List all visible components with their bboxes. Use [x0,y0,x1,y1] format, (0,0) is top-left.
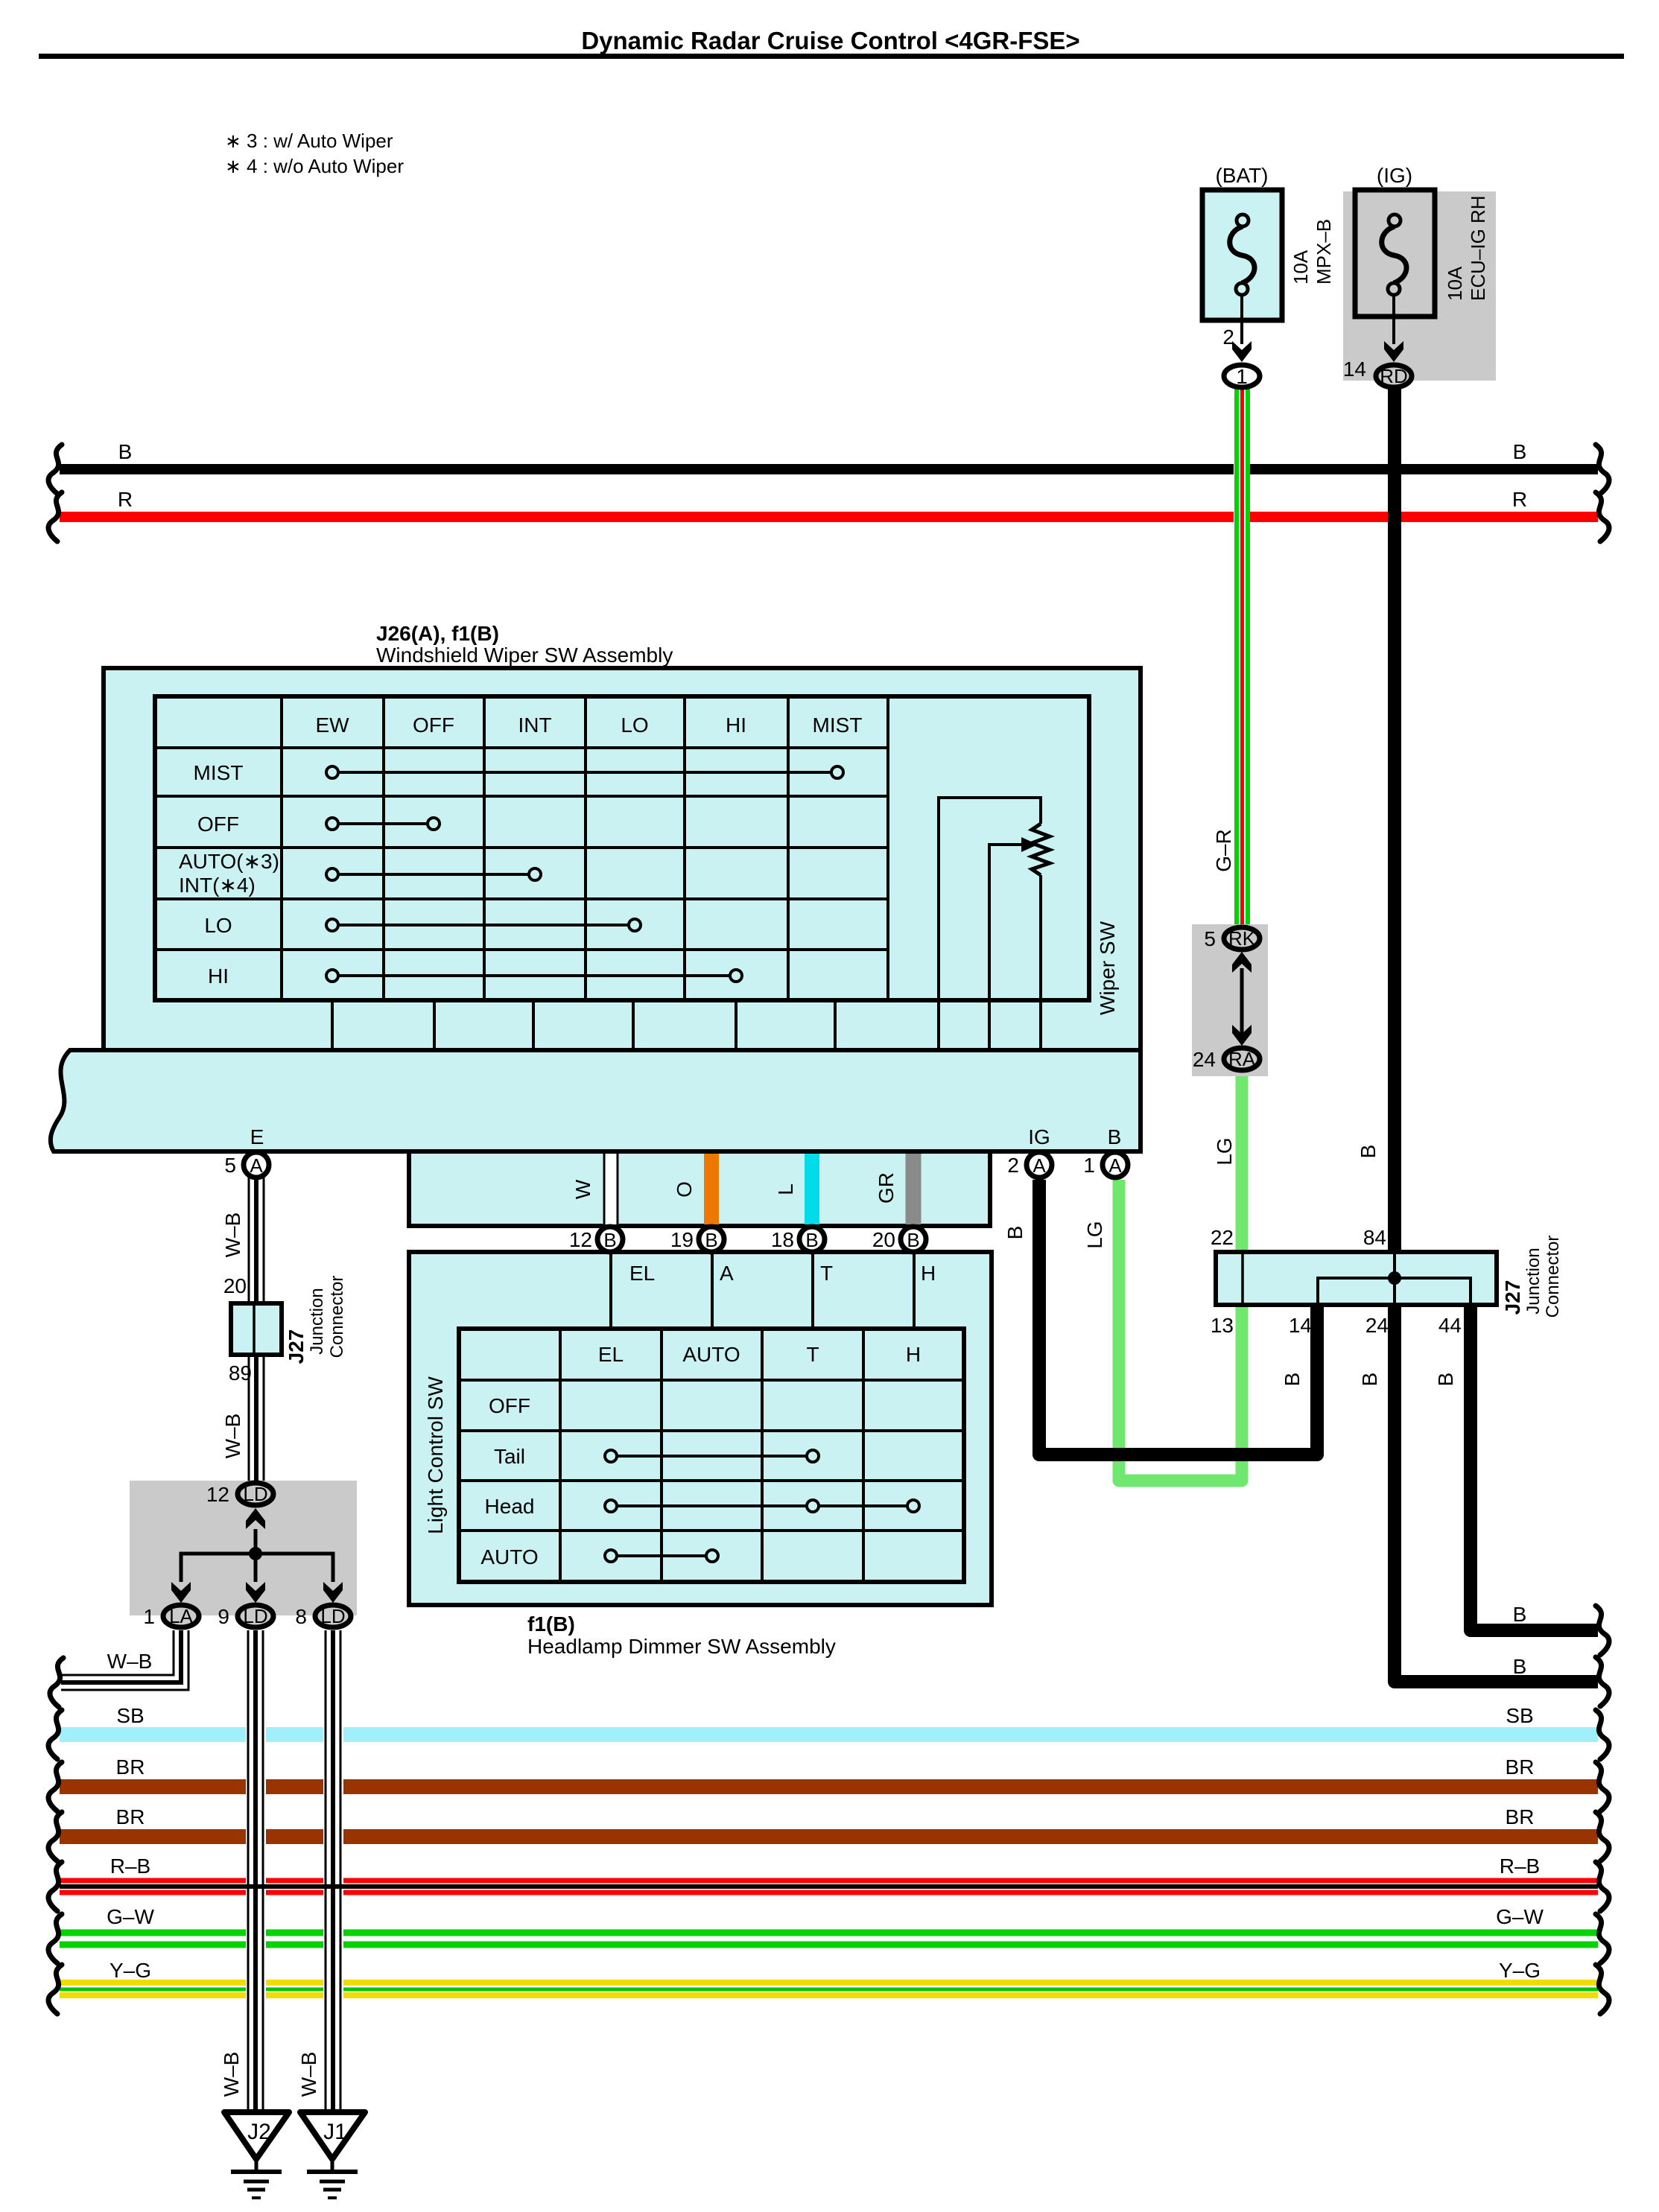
svg-text:LG: LG [1213,1137,1236,1165]
potentiometer wiper arrow [1021,837,1038,852]
svg-text:G–W: G–W [1496,1905,1544,1928]
svg-text:12: 12 [206,1483,229,1506]
potentiometer loop wiring [939,798,1041,1050]
svg-text:14: 14 [1343,357,1366,381]
svg-text:SB: SB [116,1704,144,1727]
connector B pin 20 [872,1227,926,1252]
svg-text:J27: J27 [285,1329,308,1364]
svg-text:L: L [774,1183,797,1195]
svg-text:84: 84 [1363,1226,1386,1249]
svg-text:T: T [806,1343,819,1366]
light control contact row Head [605,1500,919,1512]
svg-text:OFF: OFF [413,714,454,737]
svg-text:Junction: Junction [307,1288,327,1354]
wire B from RD down to J27 [1388,376,1401,1254]
svg-text:1: 1 [1083,1154,1095,1177]
wire fuse BAT to connector 1 [1240,295,1243,344]
svg-text:(BAT): (BAT) [1215,164,1268,187]
svg-text:8: 8 [295,1605,307,1628]
svg-text:A: A [720,1262,734,1285]
wires from B connectors into light control table [611,1252,914,1329]
svg-text:J2: J2 [247,2120,271,2144]
svg-text:B: B [805,1229,818,1251]
light control table headers [598,1343,921,1366]
svg-text:Wiper SW: Wiper SW [1096,921,1119,1015]
svg-text:HI: HI [726,714,746,737]
light control contact row AUTO [605,1550,718,1562]
light control table column lines [560,1329,863,1582]
ground J2 [224,2112,289,2198]
arrow into LD12 [246,1508,265,1529]
title rule [39,54,1624,59]
bus BR upper [48,1755,1609,1811]
svg-text:B: B [1513,1655,1527,1678]
svg-text:B: B [1358,1373,1381,1387]
wiper assembly main box [104,668,1141,1050]
ground J1 [300,2112,365,2198]
svg-text:5: 5 [224,1154,236,1177]
svg-text:B: B [1108,1125,1122,1148]
svg-text:A: A [1032,1154,1046,1177]
svg-text:2: 2 [1007,1154,1019,1177]
svg-text:Light Control SW: Light Control SW [424,1376,447,1534]
fuse MPX-B element [1230,214,1254,295]
svg-text:18: 18 [771,1228,794,1251]
svg-text:B: B [1003,1226,1027,1240]
wire W-B from J27 (left) to LD12 [249,1355,264,1481]
svg-text:W–B: W–B [221,1414,244,1459]
svg-text:Dynamic Radar Cruise Control <: Dynamic Radar Cruise Control <4GR-FSE> [581,27,1079,54]
svg-text:W: W [571,1179,594,1199]
svg-text:B: B [1513,440,1527,463]
svg-text:EL: EL [629,1262,655,1285]
svg-text:13: 13 [1211,1314,1234,1337]
svg-text:B: B [907,1229,919,1251]
svg-text:AUTO: AUTO [682,1343,740,1366]
J27 (left) internal divider [253,1303,256,1355]
svg-text:H: H [921,1262,936,1285]
svg-text:Y–G: Y–G [1499,1959,1541,1982]
LD/LA gray block [130,1481,357,1615]
svg-text:J26(A), f1(B): J26(A), f1(B) [376,622,499,645]
svg-text:MPX–B: MPX–B [1313,219,1335,285]
wire B from connector A2 down, right, up to J27 pin 14 [1039,1180,1317,1455]
svg-text:T: T [820,1262,833,1285]
svg-text:20: 20 [223,1274,247,1297]
svg-text:Connector: Connector [1543,1236,1563,1318]
svg-text:12: 12 [569,1228,592,1251]
bus B (top) [48,440,1609,494]
wire W-B from LD8 to ground J1 [326,1630,340,2112]
svg-text:BR: BR [1506,1805,1535,1828]
wire W-B from A5 to J27 (left) [249,1177,264,1303]
wire B from J27 pin 24 down and right [1395,1305,1598,1682]
svg-text:G–R: G–R [1212,829,1235,872]
svg-text:Connector: Connector [327,1276,347,1358]
svg-text:W–B: W–B [107,1650,153,1673]
svg-text:Head: Head [485,1495,535,1518]
svg-text:10A: 10A [1290,250,1312,285]
svg-text:J1: J1 [323,2120,347,2144]
wiper switch contact row LO [326,919,641,931]
two-way arrow between RK and RA [1240,968,1244,1035]
svg-text:B: B [1357,1145,1380,1159]
wiper table column headers [315,714,862,737]
column stub wires below wiper table [332,1000,835,1050]
svg-text:LO: LO [621,714,648,737]
svg-text:20: 20 [872,1228,895,1251]
svg-text:G–W: G–W [107,1905,154,1928]
svg-text:GR: GR [875,1172,898,1204]
svg-text:f1(B): f1(B) [527,1612,575,1636]
svg-text:R–B: R–B [110,1855,150,1878]
svg-text:LD: LD [320,1605,345,1627]
connector A pin 2 [1007,1152,1052,1177]
svg-text:B: B [1434,1373,1457,1387]
connector LD pin 8 [295,1605,351,1628]
svg-text:24: 24 [1193,1048,1216,1071]
svg-text:W–B: W–B [221,1213,244,1258]
svg-text:Y–G: Y–G [110,1959,151,1982]
svg-text:SB: SB [1506,1704,1533,1727]
svg-text:AUTO: AUTO [480,1545,538,1569]
svg-text:OFF: OFF [489,1394,530,1417]
arrow into LD9 [246,1582,265,1603]
J27 internal bus link [1318,1278,1471,1305]
svg-text:RA: RA [1228,1048,1256,1070]
light control SW table outer border [459,1329,964,1582]
connector B pin 12 [569,1227,623,1252]
wiper switch contact row MIST [326,766,843,778]
wiper switch contact row OFF [326,818,440,830]
junction connector J27 (right) box [1216,1252,1497,1305]
bus BR lower [48,1805,1609,1861]
white gaps where W-B ground wires cross buses [246,1706,266,2018]
bus R-B [48,1855,1609,1911]
svg-text:Windshield Wiper SW Assembly: Windshield Wiper SW Assembly [376,643,673,667]
light control table row labels [480,1394,538,1569]
connector LD pin 9 [218,1605,273,1628]
svg-text:W–B: W–B [297,2052,320,2097]
svg-text:RK: RK [1228,927,1256,950]
junction dot [249,1547,262,1560]
svg-text:19: 19 [670,1228,694,1251]
fuse ECU-IG RH element [1382,214,1406,295]
ECU-IG RH gray block [1343,191,1496,381]
J27 junction dot [1388,1271,1401,1285]
RK/RA gray block [1192,924,1268,1076]
light control contact row Tail [605,1450,819,1462]
wire G-R vertical [1237,376,1248,924]
svg-text:EW: EW [315,714,349,737]
wire LG from connector A1 down, right, up through J27 to RA [1119,1072,1242,1481]
connector RA [1193,1048,1260,1071]
connector RK [1204,927,1260,950]
svg-text:5: 5 [1204,927,1216,950]
svg-text:44: 44 [1438,1314,1462,1337]
svg-text:LG: LG [1083,1221,1106,1248]
svg-text:LA: LA [169,1605,193,1627]
connector A pin 5 [224,1152,269,1177]
svg-text:O: O [673,1181,696,1198]
wiper switch contact row AUTO/INT [326,868,541,880]
svg-text:1: 1 [1236,365,1248,388]
svg-text:9: 9 [218,1605,229,1628]
svg-text:MIST: MIST [194,761,244,784]
wire L in corridor [805,1154,819,1224]
svg-text:(IG): (IG) [1377,164,1412,187]
svg-text:LD: LD [243,1605,267,1627]
svg-text:ECU–IG RH: ECU–IG RH [1467,195,1489,301]
bus SB [48,1704,1609,1759]
potentiometer resistor R [1032,824,1050,875]
svg-text:IG: IG [1028,1125,1050,1148]
connector RD oval [1376,365,1412,387]
svg-text:R: R [1512,488,1527,511]
wiper switch contact row HI [326,970,742,982]
svg-text:BR: BR [116,1755,145,1779]
arrow into LD8 [323,1582,343,1603]
svg-text:Tail: Tail [494,1445,525,1468]
bus G-W [48,1905,1609,1963]
wiper table row lines [155,748,888,950]
light control table row lines [459,1380,964,1531]
wire W-B from LA1 left to edge [61,1630,188,1690]
svg-text:B: B [118,440,133,463]
internal wiring LD12 to LA1/LD9/LD8 [181,1529,333,1582]
J27 internal divider [1241,1252,1244,1305]
svg-text:Headlamp Dimmer SW Assembly: Headlamp Dimmer SW Assembly [527,1635,836,1658]
svg-text:W–B: W–B [220,2052,243,2097]
svg-text:∗ 4 : w/o Auto Wiper: ∗ 4 : w/o Auto Wiper [225,155,404,177]
svg-text:24: 24 [1365,1314,1389,1337]
connector B pin 18 [771,1227,825,1252]
wiper table row labels [179,761,279,988]
connector 1 oval [1224,365,1260,388]
fuse MPX-B box [1202,190,1282,320]
svg-text:E: E [250,1125,264,1148]
svg-text:A: A [1108,1154,1122,1177]
junction connector J27 (left) box [231,1303,282,1355]
svg-text:EL: EL [598,1343,624,1366]
svg-text:BR: BR [116,1805,145,1828]
svg-text:AUTO(∗3): AUTO(∗3) [179,850,279,873]
svg-text:B: B [603,1229,616,1251]
svg-text:BR: BR [1506,1755,1535,1779]
svg-text:R: R [118,488,133,511]
svg-text:∗ 3 : w/ Auto Wiper: ∗ 3 : w/ Auto Wiper [225,130,393,152]
svg-text:10A: 10A [1444,266,1466,301]
wire O in corridor [704,1154,719,1224]
wiper assembly bottom strip (with break squiggle at left) [51,1050,1141,1151]
connector LD pin 12 [206,1483,273,1506]
bus R-B black stripe (continuous) [60,1884,1598,1889]
connector A pin 1 [1083,1152,1128,1177]
wiring corridor box [409,1151,990,1226]
svg-text:OFF: OFF [197,813,239,836]
svg-text:J27: J27 [1501,1280,1524,1315]
fuse ECU-IG RH box [1355,190,1435,317]
wiper table column lines [282,696,888,1000]
svg-text:B: B [1513,1603,1527,1626]
wire GR in corridor [906,1154,922,1224]
svg-text:Junction: Junction [1523,1248,1544,1314]
bus Y-G [48,1959,1609,2014]
wire fuse IG to connector RD [1392,295,1395,344]
wire W in corridor [603,1154,619,1224]
svg-text:LO: LO [204,914,232,937]
bus R (top) [48,488,1609,541]
svg-text:HI: HI [208,964,229,988]
connector B pin 19 [670,1227,724,1252]
connector LA pin 1 [143,1605,199,1628]
arrow into connector 1 [1232,341,1252,362]
svg-text:B: B [705,1229,717,1251]
svg-text:R–B: R–B [1500,1855,1540,1878]
svg-text:B: B [1281,1373,1304,1387]
J27 internal wire 84-24 [1393,1252,1396,1305]
wiper SW table outer border [155,696,1089,1000]
Headlamp Dimmer SW Assembly box [409,1252,992,1605]
wire B from J27 pin 44 down and right [1471,1305,1598,1630]
svg-text:INT(∗4): INT(∗4) [179,874,256,897]
arrow into LA1 [171,1582,191,1603]
arrow into connector RD [1384,341,1403,362]
svg-text:22: 22 [1211,1226,1234,1249]
svg-text:RD: RD [1380,365,1408,387]
svg-text:H: H [906,1343,921,1366]
wire W-B from LD9 to ground J2 [248,1630,263,2112]
svg-text:1: 1 [143,1605,155,1628]
svg-text:14: 14 [1289,1314,1312,1337]
svg-text:INT: INT [518,714,551,737]
svg-text:A: A [250,1154,263,1177]
svg-text:MIST: MIST [813,714,863,737]
svg-text:LD: LD [243,1483,267,1505]
